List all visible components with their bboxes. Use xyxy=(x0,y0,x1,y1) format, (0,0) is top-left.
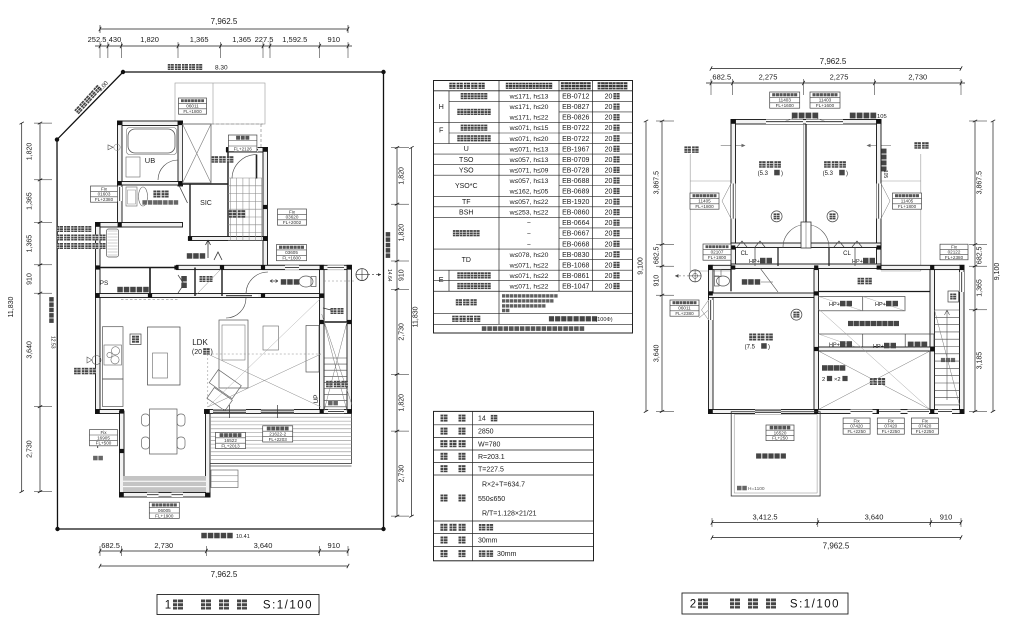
svg-text:HP+: HP+ xyxy=(875,302,886,308)
svg-text:07420: 07420 xyxy=(850,424,863,429)
svg-text:): ) xyxy=(846,171,848,177)
svg-text:06005: 06005 xyxy=(158,508,171,513)
label toilet 2F xyxy=(742,279,760,285)
label handrail balcony xyxy=(737,486,747,491)
gable overhang outline left xyxy=(689,154,691,271)
heat box xyxy=(130,334,141,345)
dimension total 9,100 (2F right) xyxy=(992,121,994,411)
svg-text:682.5: 682.5 xyxy=(712,73,731,82)
svg-text:FL+2250: FL+2250 xyxy=(916,429,935,434)
refrigerator xyxy=(103,379,124,407)
svg-text:EB-0830: EB-0830 xyxy=(562,252,589,259)
dimension total 11,830 (1F right) xyxy=(411,148,413,517)
svg-text:07420: 07420 xyxy=(919,424,932,429)
stairs diagonal xyxy=(324,322,347,411)
svg-text:T=227.5: T=227.5 xyxy=(478,466,504,473)
label stairwell 2F xyxy=(941,358,955,362)
svg-text:3,867.5: 3,867.5 xyxy=(977,171,984,194)
room label stairs xyxy=(326,381,348,388)
svg-text:20: 20 xyxy=(605,94,613,101)
svg-text:×2: ×2 xyxy=(834,377,841,383)
stair table rows xyxy=(441,415,448,422)
wall west mid 2F xyxy=(709,265,714,413)
door arc genkan xyxy=(232,155,257,179)
room label datsui xyxy=(153,191,168,198)
svg-text:1: 1 xyxy=(165,600,171,612)
room label porch xyxy=(212,156,234,163)
svg-text:20: 20 xyxy=(605,262,613,269)
wall closet divider 2 xyxy=(221,268,223,297)
svg-text:FL+1600: FL+1600 xyxy=(816,103,835,108)
door arc UB xyxy=(158,160,178,180)
smoke vent circle hall xyxy=(791,309,802,320)
svg-text:30mm: 30mm xyxy=(478,538,498,545)
svg-text:TF: TF xyxy=(462,199,471,206)
svg-text:w≤057, h≤22: w≤057, h≤22 xyxy=(509,199,549,206)
svg-text:20: 20 xyxy=(605,231,613,238)
balcony xyxy=(731,412,820,496)
window label deck door 1 xyxy=(216,432,246,448)
label handrail xyxy=(328,401,338,406)
window label balcony door xyxy=(766,425,794,441)
wall toilet east xyxy=(320,270,325,298)
svg-text:06011: 06011 xyxy=(186,104,199,109)
porch cross brace xyxy=(183,124,212,183)
svg-text:SIC: SIC xyxy=(200,200,212,207)
svg-text:CL: CL xyxy=(843,251,851,257)
chairs xyxy=(142,414,150,426)
wall genkan south xyxy=(189,237,268,241)
wall hall north extension xyxy=(709,265,732,269)
svg-text:Fix: Fix xyxy=(854,418,861,423)
svg-text:w≤071, h≤09: w≤071, h≤09 xyxy=(509,167,549,174)
deck with plank hatch xyxy=(210,414,352,464)
wall stairs-closet divider xyxy=(324,321,347,323)
svg-text:W=780: W=780 xyxy=(478,441,500,448)
svg-text:01603: 01603 xyxy=(98,192,111,197)
svg-text:11,830: 11,830 xyxy=(8,296,15,317)
svg-text:U: U xyxy=(464,146,469,153)
svg-text:E: E xyxy=(439,275,444,284)
dimension chain 2F left xyxy=(661,121,663,411)
svg-text:w≤171, h≤22: w≤171, h≤22 xyxy=(509,115,549,122)
svg-text:HP+: HP+ xyxy=(829,302,840,308)
svg-text:20: 20 xyxy=(605,157,613,164)
door arc toilet xyxy=(246,272,268,294)
svg-text:FL+1800: FL+1800 xyxy=(708,255,727,260)
window label katabirakido xyxy=(228,135,257,152)
svg-text:1,820: 1,820 xyxy=(27,143,34,161)
wall closet divider 1 xyxy=(194,268,196,297)
window label left 02107 xyxy=(703,244,731,260)
svg-text:EB-0728: EB-0728 xyxy=(562,167,589,174)
svg-text:EB-0668: EB-0668 xyxy=(562,241,589,248)
svg-text:(5.3: (5.3 xyxy=(823,171,834,177)
master door leaf xyxy=(760,268,778,292)
svg-text:03620: 03620 xyxy=(286,215,299,220)
sash table row lines xyxy=(449,100,633,102)
svg-text:02107: 02107 xyxy=(711,250,724,255)
svg-text:1,365: 1,365 xyxy=(232,35,251,44)
svg-text:105: 105 xyxy=(877,114,887,120)
dimension chain 2F top xyxy=(706,82,965,84)
wall bedrooms south xyxy=(731,243,881,248)
svg-text:2850: 2850 xyxy=(478,429,494,436)
svg-text:20: 20 xyxy=(605,241,613,248)
svg-text:EB-0827: EB-0827 xyxy=(562,104,589,111)
sash table column lines xyxy=(498,81,500,292)
svg-text:7,962.5: 7,962.5 xyxy=(211,570,238,579)
closet dividers 2F xyxy=(777,248,779,267)
svg-text:FL+1600: FL+1600 xyxy=(282,256,301,261)
label ketashita right xyxy=(914,142,928,149)
wall family closet east xyxy=(930,270,935,414)
svg-text:2,730: 2,730 xyxy=(27,440,34,458)
svg-text:14: 14 xyxy=(478,416,486,423)
svg-text:FL+1800: FL+1800 xyxy=(898,204,917,209)
wall UB west xyxy=(118,121,123,227)
wall hall-east extension xyxy=(881,265,964,269)
svg-text:2,730: 2,730 xyxy=(908,73,927,82)
svg-text:682.5: 682.5 xyxy=(101,541,120,550)
room label closet stairs xyxy=(331,308,344,314)
living zone dashed cross xyxy=(208,353,321,355)
svg-text:3,640: 3,640 xyxy=(254,541,273,550)
smoke vent square stairs xyxy=(948,291,959,302)
wall genkan north xyxy=(227,148,268,153)
svg-text:105: 105 xyxy=(882,170,888,179)
svg-text:FL+2380: FL+2380 xyxy=(675,311,694,316)
toilet fixture xyxy=(299,276,313,287)
svg-text:S:1/100: S:1/100 xyxy=(790,599,840,611)
svg-text:EB-0689: EB-0689 xyxy=(562,189,589,196)
svg-text:LDK: LDK xyxy=(192,338,208,347)
svg-text:21622-2: 21622-2 xyxy=(269,432,286,437)
svg-text:EB-1920: EB-1920 xyxy=(562,199,589,206)
svg-text:S:1/100: S:1/100 xyxy=(263,600,313,612)
pantry dashed line xyxy=(121,299,178,301)
toilet fixture 2F xyxy=(717,276,730,286)
svg-text:EB-1967: EB-1967 xyxy=(562,146,589,153)
door arc hall-LDK xyxy=(226,298,246,318)
svg-text:30mm: 30mm xyxy=(497,551,517,558)
svg-text:2,275: 2,275 xyxy=(759,73,778,82)
ottoman rotated xyxy=(201,370,242,411)
svg-text:w≤057, h≤13: w≤057, h≤13 xyxy=(509,157,549,164)
window labels south fix x3 xyxy=(843,418,870,434)
dimension total 7,962.5 (2F bottom) xyxy=(712,537,961,539)
window 2F west master xyxy=(709,300,714,320)
windows 2F south wall xyxy=(851,410,873,415)
wall dining west xyxy=(120,411,125,497)
svg-text:(5.3: (5.3 xyxy=(758,171,769,177)
svg-text:910: 910 xyxy=(399,269,406,281)
svg-text:Fix: Fix xyxy=(922,418,929,423)
svg-text:EB-0667: EB-0667 xyxy=(562,231,589,238)
svg-text:9,100: 9,100 xyxy=(994,263,1001,281)
svg-text:H=1100: H=1100 xyxy=(748,486,765,492)
wall UB north xyxy=(118,121,183,126)
svg-text:910: 910 xyxy=(654,275,661,287)
svg-text:FL+500: FL+500 xyxy=(96,441,112,446)
site label road boundary 8.30 xyxy=(168,64,202,70)
svg-text:682.5: 682.5 xyxy=(654,246,661,264)
bath washplace xyxy=(126,157,140,177)
svg-text:w≤071, h≤15: w≤071, h≤15 xyxy=(509,125,549,132)
svg-text:EB-0861: EB-0861 xyxy=(562,273,589,280)
stair arrow 2F xyxy=(945,310,950,400)
svg-text:910: 910 xyxy=(27,273,34,285)
svg-text:1,820: 1,820 xyxy=(399,167,406,185)
svg-text:HP+: HP+ xyxy=(749,259,760,265)
svg-text:TD: TD xyxy=(462,257,471,264)
svg-text:227.5: 227.5 xyxy=(255,35,274,44)
svg-text:EB-0688: EB-0688 xyxy=(562,178,589,185)
posts floor1 xyxy=(118,121,122,125)
svg-text:FL+2380: FL+2380 xyxy=(95,197,114,202)
svg-text:1,820: 1,820 xyxy=(140,35,159,44)
wall family closet shelf top xyxy=(819,291,931,293)
window dining south 06005 xyxy=(147,493,159,498)
stairs treads 1F xyxy=(324,357,347,359)
wall east upper xyxy=(263,148,268,268)
svg-text:1,365: 1,365 xyxy=(977,279,984,297)
wall east lower xyxy=(347,265,352,413)
svg-text:−: − xyxy=(527,220,531,227)
fukinuke cross xyxy=(819,351,931,410)
svg-text:EB-0722: EB-0722 xyxy=(562,136,589,143)
svg-text:w≤071, h≤20: w≤071, h≤20 xyxy=(509,136,549,143)
svg-text:1,365: 1,365 xyxy=(190,35,209,44)
svg-text:2,730: 2,730 xyxy=(399,323,406,341)
svg-text:EB-1068: EB-1068 xyxy=(562,262,589,269)
svg-text:HP+: HP+ xyxy=(852,259,863,265)
stair table lines xyxy=(434,424,594,426)
svg-text:3,185: 3,185 xyxy=(977,352,984,370)
svg-text:20: 20 xyxy=(605,220,613,227)
svg-text:2: 2 xyxy=(690,599,696,611)
stair table frame xyxy=(434,411,594,560)
svg-text:06011: 06011 xyxy=(678,306,691,311)
svg-text:FL+1800: FL+1800 xyxy=(695,204,714,209)
wall hall south xyxy=(96,294,325,298)
label ketashita left xyxy=(684,146,698,153)
window center ticks deck doors xyxy=(229,405,231,418)
svg-text:FL+250: FL+250 xyxy=(772,436,788,441)
svg-text:20: 20 xyxy=(605,273,613,280)
dining table xyxy=(150,409,178,454)
dimension chain 1F top xyxy=(95,45,352,47)
svg-text:16905: 16905 xyxy=(97,435,110,440)
svg-text:FL+2380: FL+2380 xyxy=(945,255,964,260)
label fukinuke xyxy=(870,378,885,385)
svg-text:FL+2250: FL+2250 xyxy=(847,429,866,434)
water heater striped xyxy=(107,229,119,257)
stove xyxy=(104,345,122,365)
wall south 2F xyxy=(709,410,965,414)
closet folding door marks xyxy=(178,275,184,293)
wall east mid 2F xyxy=(960,265,965,413)
svg-text:20: 20 xyxy=(605,283,613,290)
legal note text xyxy=(57,226,91,232)
wall pantry east xyxy=(149,268,151,296)
svg-text:2,730: 2,730 xyxy=(399,465,406,483)
svg-text:FL+1900: FL+1900 xyxy=(155,513,174,518)
svg-text:(20: (20 xyxy=(192,349,202,356)
svg-text:8.30: 8.30 xyxy=(215,65,228,72)
kitchen island xyxy=(148,327,181,385)
wall west kitchen xyxy=(96,223,101,414)
svg-text:(7.5: (7.5 xyxy=(745,345,756,351)
svg-text:): ) xyxy=(211,349,213,356)
wall master bedroom north xyxy=(709,293,819,298)
wall SIC north xyxy=(183,183,229,185)
room label toilet xyxy=(281,279,299,285)
canopy outline above porch xyxy=(175,83,265,124)
wall LDK south xyxy=(205,410,352,414)
svg-text:EB-0860: EB-0860 xyxy=(562,210,589,217)
washer oval xyxy=(139,187,148,206)
svg-text:PS: PS xyxy=(100,280,109,287)
svg-text:07420: 07420 xyxy=(884,424,897,429)
label kabefukashi 105 top xyxy=(850,113,876,119)
sash table frame xyxy=(434,81,633,334)
svg-text:20: 20 xyxy=(605,115,613,122)
svg-text:12.53: 12.53 xyxy=(50,336,56,349)
svg-text:16522: 16522 xyxy=(224,438,237,443)
hall arrow up xyxy=(206,240,211,258)
title 2F plan xyxy=(682,593,848,614)
svg-text:910: 910 xyxy=(940,513,953,522)
svg-text:FL+2013: FL+2013 xyxy=(221,444,240,449)
svg-text:11403: 11403 xyxy=(778,98,791,103)
wall closets north xyxy=(177,265,325,269)
wall family closet west xyxy=(814,270,819,414)
gable overhang outline right xyxy=(920,154,922,271)
svg-text:EB-0722: EB-0722 xyxy=(562,125,589,132)
label bankin mizukiri xyxy=(792,113,818,119)
porch edge dashed xyxy=(211,123,263,125)
window label dining south xyxy=(149,502,179,518)
door arch hall double xyxy=(783,225,829,248)
label hallway xyxy=(858,278,872,285)
svg-text:2,275: 2,275 xyxy=(830,73,849,82)
balcony door xyxy=(755,410,781,415)
svg-text:R×2+T=634.7: R×2+T=634.7 xyxy=(482,482,525,489)
window label 06011 porch top xyxy=(179,98,207,114)
kitchen counter xyxy=(103,327,124,379)
window label side right 11405 xyxy=(893,193,922,209)
window label west 06011 2F xyxy=(670,300,699,316)
svg-text:−: − xyxy=(527,241,531,248)
window label deck door 2 xyxy=(263,426,293,442)
wall bedrooms north xyxy=(731,120,881,125)
compass symbol 2F xyxy=(689,270,701,282)
svg-text:w≤078, h≤20: w≤078, h≤20 xyxy=(509,252,549,259)
wall toilet 2F east xyxy=(730,270,732,292)
svg-text:20: 20 xyxy=(605,125,613,132)
svg-text:3,412.5: 3,412.5 xyxy=(752,513,777,522)
svg-text:EB-0826: EB-0826 xyxy=(562,115,589,122)
site label south boundary 10.41 xyxy=(201,533,232,539)
svg-text:EB-1047: EB-1047 xyxy=(562,283,589,290)
label family closet xyxy=(848,321,899,326)
label movable shelf xyxy=(908,342,927,348)
wall UB east / porch divider xyxy=(178,121,183,186)
site label road boundary 3.00 diagonal xyxy=(74,85,101,115)
svg-text:w≤057, h≤13: w≤057, h≤13 xyxy=(509,178,549,185)
svg-text:2,730: 2,730 xyxy=(154,541,173,550)
window label fix mid east xyxy=(278,209,307,225)
label dekomado xyxy=(822,365,845,371)
wall dining south xyxy=(120,493,211,498)
window stairs south xyxy=(328,410,344,415)
window label fix kitchen west xyxy=(90,430,118,446)
svg-text:H: H xyxy=(439,102,444,111)
window closet north xyxy=(328,265,345,270)
svg-text:430: 430 xyxy=(109,35,122,44)
svg-text:w≤171, h≤13: w≤171, h≤13 xyxy=(509,94,549,101)
label kabefukashi 105 rotated xyxy=(882,149,887,172)
svg-text:YSO*C: YSO*C xyxy=(455,183,478,190)
svg-text:R=203.1: R=203.1 xyxy=(478,454,505,461)
bath tub xyxy=(128,129,175,153)
svg-text:HP+: HP+ xyxy=(873,344,884,350)
svg-text:1,820: 1,820 xyxy=(399,394,406,412)
label balcony xyxy=(756,453,786,458)
deck step xyxy=(211,470,238,488)
UB vent symbol xyxy=(108,145,113,150)
svg-text:UP: UP xyxy=(313,394,320,403)
room label closet vertical xyxy=(181,276,187,288)
wall bedrooms west xyxy=(731,120,736,268)
svg-text:7,962.5: 7,962.5 xyxy=(820,57,847,66)
svg-text:w≤071, h≤13: w≤071, h≤13 xyxy=(509,146,549,153)
wall stairs west xyxy=(320,298,325,414)
stairs treads 2F xyxy=(935,309,960,311)
svg-text:20: 20 xyxy=(605,104,613,111)
side table xyxy=(263,326,279,350)
dimension chain 1F bottom xyxy=(100,550,348,552)
svg-text:w≤071, h≤22: w≤071, h≤22 xyxy=(509,262,549,269)
wall SIC-genkan divider xyxy=(227,152,229,239)
septic symbol xyxy=(356,269,368,281)
svg-text:): ) xyxy=(768,345,770,351)
dimension total 7,962.5 (1F bottom) xyxy=(100,565,348,567)
svg-text:FL+2250: FL+2250 xyxy=(882,429,901,434)
label jimado xyxy=(93,456,103,461)
room label hall xyxy=(187,253,205,259)
svg-text:Fix: Fix xyxy=(100,430,107,435)
svg-text:YSO: YSO xyxy=(459,167,474,174)
sash table name cells xyxy=(461,93,488,99)
svg-text:20: 20 xyxy=(605,167,613,174)
svg-text:1,365: 1,365 xyxy=(27,192,34,210)
wall closet row south xyxy=(731,264,881,269)
room label pantry xyxy=(117,287,148,293)
svg-text:1,365: 1,365 xyxy=(27,235,34,253)
svg-text:w≤253, h≤22: w≤253, h≤22 xyxy=(509,210,549,217)
dimension total 9,100 (2F left) xyxy=(645,121,647,411)
site boundary 1F xyxy=(57,72,384,529)
washbasin 2F xyxy=(715,270,722,277)
svg-text:252.5: 252.5 xyxy=(88,35,107,44)
wall UB-datsui divider xyxy=(118,182,183,186)
svg-text:FL+1600: FL+1600 xyxy=(776,103,795,108)
label exhaust xyxy=(74,368,96,375)
svg-text:11405: 11405 xyxy=(901,199,914,204)
window label top 11403 x2 xyxy=(770,92,800,108)
